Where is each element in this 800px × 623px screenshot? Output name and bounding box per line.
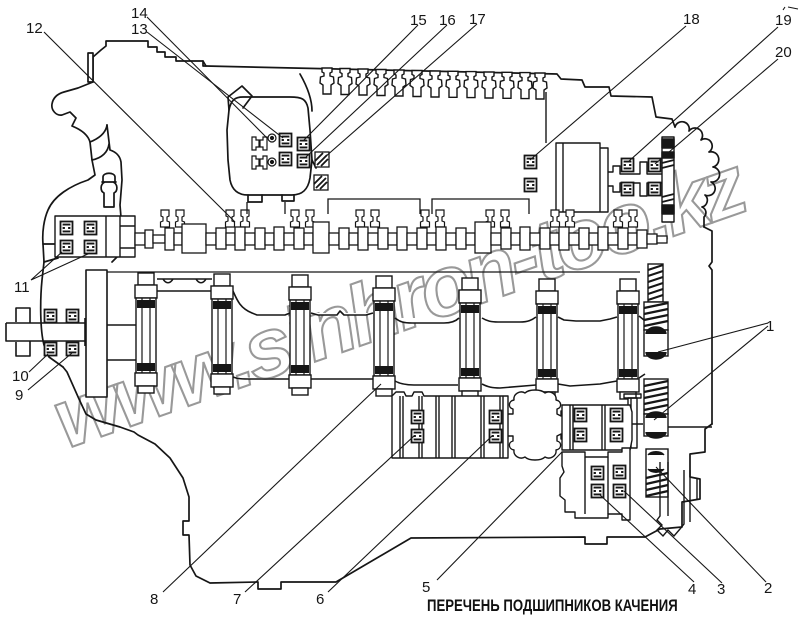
bulb shaft (508, 390, 575, 460)
right gear box (562, 405, 632, 450)
leader line 5 (437, 452, 562, 580)
right edge vertical (704, 227, 712, 424)
svg-text:12: 12 (26, 20, 43, 37)
svg-text:11: 11 (14, 279, 30, 296)
crank right end (639, 316, 645, 378)
cam follower tappets (161, 210, 170, 227)
connecting rod 7 (617, 279, 639, 399)
pin bar rod1-rod2 top (157, 279, 212, 291)
connecting rod 4 (373, 276, 395, 396)
leader line 18 (530, 26, 686, 160)
web rod4-rod5 (395, 318, 459, 385)
journal plate to rod1 (107, 325, 136, 360)
oil pump bearings (items 6,7) (412, 411, 424, 424)
connecting rod 3 (289, 275, 311, 395)
leader line 6 (328, 436, 492, 592)
scalloped gear housing arc right (675, 122, 720, 227)
leader lines 11 (31, 252, 90, 280)
engine block top outline (93, 41, 675, 127)
timing housing bearing (item 15) (298, 138, 310, 151)
leader line 2 (656, 467, 766, 582)
small tappets above camshaft (161, 210, 638, 227)
pump gear vertical (662, 137, 674, 222)
connecting rod 5 (459, 278, 481, 398)
svg-text:3: 3 (717, 581, 725, 598)
svg-text:4: 4 (688, 581, 696, 598)
svg-text:20: 20 (775, 44, 792, 61)
valve tappets row (320, 68, 334, 94)
front gear housing rounded box (227, 97, 312, 195)
valve tappets row on head deck (320, 68, 547, 99)
svg-text:5: 5 (422, 579, 430, 596)
crank nose shaft left (6, 308, 85, 356)
leader line 7 (245, 436, 414, 592)
timing housing bearing (item 13) (280, 134, 292, 147)
leader line 10 (29, 354, 48, 372)
oil pump assembly (392, 390, 643, 520)
leader line 20 (655, 59, 778, 164)
web rod5-rod6 (482, 317, 536, 388)
roller bearing lower (314, 175, 328, 190)
bottom right staircase (63, 367, 712, 589)
svg-text:16: 16 (439, 12, 456, 29)
right gear stack (644, 264, 668, 497)
corner mark top right (783, 7, 798, 10)
housing interior bearings (252, 134, 276, 169)
housing top-left chamfer tab (228, 86, 252, 110)
pump drive shaft (608, 162, 662, 196)
blob inner lines (43, 125, 109, 262)
svg-text:13: 13 (131, 21, 148, 38)
lower housing (560, 448, 630, 520)
leader line 14 (147, 17, 267, 138)
leader line 8 (163, 384, 381, 592)
svg-text:15: 15 (410, 12, 427, 29)
leader line 12 (44, 32, 235, 222)
inner shape right of blob (107, 125, 122, 262)
front cover blob outline (41, 82, 95, 367)
leader line 3 (624, 491, 722, 583)
svg-text:19: 19 (775, 12, 792, 29)
svg-text:18: 18 (683, 11, 700, 28)
head right side wall (545, 92, 547, 143)
svg-text:6: 6 (316, 591, 324, 608)
connecting rod 1 (135, 273, 157, 393)
svg-text:9: 9 (15, 387, 23, 404)
right lower flywheel bracket (657, 427, 712, 536)
leader line 13 (147, 32, 283, 138)
timing housing bearing row2 (280, 153, 292, 166)
web rod6-rod7 (558, 317, 617, 386)
svg-text:7: 7 (233, 591, 241, 608)
lower housing bearings (items 3,4) (592, 467, 604, 480)
injection pump body (556, 143, 608, 212)
connecting rod 2 (211, 274, 233, 394)
connecting rod 6 (536, 279, 558, 399)
camshaft left bearing block (55, 216, 135, 257)
svg-text:1: 1 (766, 318, 774, 335)
brackets above camshaft (247, 199, 529, 214)
housing bottom tabs (248, 195, 294, 202)
camshaft body (135, 222, 667, 253)
timing housing bearing (item 16) (298, 155, 310, 168)
injection pump shaft bearings (items 18,19,20) (525, 156, 537, 169)
svg-text:10: 10 (12, 368, 29, 385)
svg-text:8: 8 (150, 591, 158, 608)
caption text (427, 597, 678, 616)
svg-text:14: 14 (131, 5, 148, 22)
leader line 9 (28, 353, 72, 390)
crankshaft webs and journals (6, 270, 645, 397)
svg-text:17: 17 (469, 11, 486, 28)
front plate (86, 270, 107, 397)
deck to gear housing connector left (203, 61, 206, 66)
crankcase top line (86, 271, 640, 273)
drive gearbox bearings (575, 409, 587, 422)
crank nose bearings (items 9,10) (45, 310, 57, 323)
leader line 15 (303, 25, 418, 141)
leader lines 1 (654, 323, 768, 420)
leader line 17 (325, 24, 477, 157)
web rod3-rod4 (311, 311, 373, 379)
leader line 19 (628, 27, 778, 162)
camshaft front bearings (item 11) (61, 222, 73, 235)
roller bearing (item 17) (315, 152, 329, 167)
housing right bottom curve to deck (300, 74, 316, 168)
leader line 16 (306, 25, 447, 157)
leader line 4 (599, 494, 694, 582)
left flange rect (88, 53, 93, 82)
svg-text:ПЕРЕЧЕНЬ ПОДШИПНИКОВ КАЧЕНИЯ: ПЕРЕЧЕНЬ ПОДШИПНИКОВ КАЧЕНИЯ (427, 597, 678, 616)
bottle cap on blob (101, 173, 117, 207)
svg-text:2: 2 (764, 580, 772, 597)
web rod2-rod3 (233, 291, 290, 379)
